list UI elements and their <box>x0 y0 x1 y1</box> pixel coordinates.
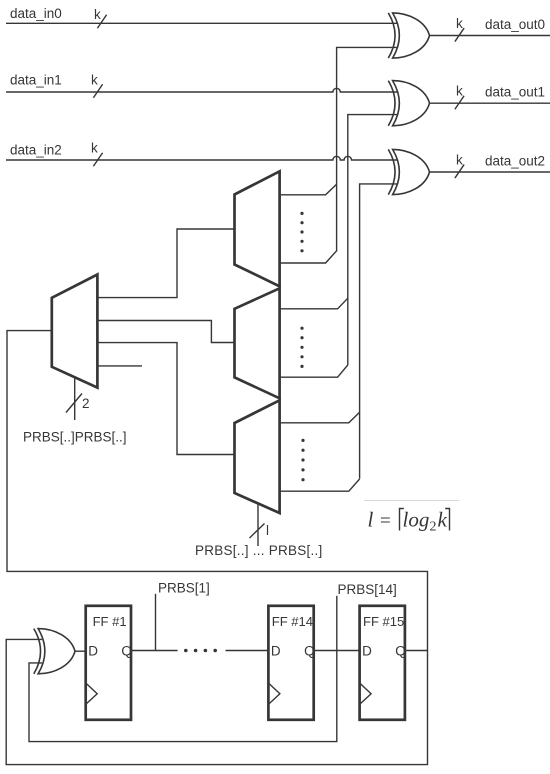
wire FF15 Q <box>405 650 428 652</box>
svg-text:data_in0: data_in0 <box>10 6 62 21</box>
svg-text:k: k <box>456 153 463 168</box>
ellipsis dots demux D2 outputs <box>300 327 303 368</box>
bus slash 2 on M0 select <box>66 394 82 413</box>
annotation l = ceil(log2 k) <box>368 508 450 535</box>
svg-text:Q: Q <box>304 644 315 659</box>
bus slash k on data_out2 <box>455 165 464 179</box>
op XOR gate U2 <box>388 81 429 126</box>
svg-text:k: k <box>94 7 101 22</box>
wire demux3 bus to XOR U3 input <box>360 184 398 479</box>
op XOR gate U1 <box>388 13 429 58</box>
wire M0 select <box>74 378 76 420</box>
wire XOR X0 output to FF1 D <box>75 650 86 652</box>
flip-flop FF #15 <box>360 606 406 720</box>
wire demux D2 fan bottom <box>280 365 348 377</box>
demux D1 <box>235 171 280 286</box>
mux M0 (2-bit select) <box>52 275 98 388</box>
wire data_out2 <box>430 171 550 173</box>
wire demux D1 fan top <box>280 184 337 195</box>
flip-flop FF #1 <box>86 606 132 720</box>
svg-text:k: k <box>456 16 463 31</box>
op XOR gate U3 <box>388 149 429 194</box>
svg-text:PRBS[14]: PRBS[14] <box>338 582 397 597</box>
bus slash k on data_out0 <box>455 28 464 42</box>
svg-text:k: k <box>91 141 98 156</box>
svg-text:k: k <box>91 73 98 88</box>
svg-text:Q: Q <box>395 644 406 659</box>
svg-text:data_out0: data_out0 <box>485 17 545 32</box>
svg-text:PRBS[..] ... PRBS[..]: PRBS[..] ... PRBS[..] <box>195 543 323 558</box>
svg-text:2: 2 <box>82 396 90 411</box>
svg-text:D: D <box>271 644 281 659</box>
ellipsis dots demux D3 outputs <box>301 439 304 482</box>
wire demux D2 fan top <box>280 298 348 309</box>
bus slash k on data_in0 <box>97 15 106 29</box>
svg-text:l: l <box>368 508 374 532</box>
svg-text:FF #1: FF #1 <box>93 614 127 629</box>
wire PRBS[1] tap <box>155 594 157 651</box>
wire data_out0 <box>430 35 550 37</box>
svg-text:data_out2: data_out2 <box>485 154 545 169</box>
wire demux D1 fan bottom <box>280 251 337 263</box>
svg-text:FF #14: FF #14 <box>272 614 313 629</box>
svg-text:D: D <box>362 644 372 659</box>
svg-text:data_out1: data_out1 <box>485 85 545 100</box>
wire data_in2 (hops over verticals) <box>6 156 397 160</box>
wire M0 output 4 stub <box>97 365 142 367</box>
wire demux D3 fan bottom <box>280 479 360 491</box>
svg-text:k: k <box>456 84 463 99</box>
bus slash k on data_in2 <box>93 153 102 167</box>
demux D3 <box>235 400 280 513</box>
svg-text:k: k <box>438 508 448 532</box>
wire M0 output 2 to demux D2 input <box>97 321 234 343</box>
svg-text:data_in1: data_in1 <box>10 73 62 88</box>
op XOR gate X0 (PRBS feedback) <box>34 629 75 674</box>
wire demux select l <box>257 503 259 546</box>
wire PRBS[14] tap <box>336 596 338 651</box>
wire M0 output 3 to demux D3 input <box>97 343 234 455</box>
wire demux1 bus to XOR U1 input <box>337 47 398 251</box>
bus slash l on demux select <box>250 524 265 539</box>
wire FF15 Q feedback to XOR X0 top input (outer loop) <box>6 639 427 764</box>
svg-text:log: log <box>403 508 430 532</box>
ellipsis dots FF chain <box>184 649 217 653</box>
svg-text:PRBS[1]: PRBS[1] <box>158 581 210 596</box>
svg-text:PRBS[..]PRBS[..]: PRBS[..]PRBS[..] <box>23 430 127 445</box>
wire to FF14 D <box>226 650 269 652</box>
wire M0 output 1 to demux D1 input <box>97 229 234 298</box>
wire FF14 Q to FF15 D <box>314 650 360 652</box>
svg-text:2: 2 <box>430 520 437 535</box>
wire FF15 Q feedback to M0 input (top loop) <box>7 331 428 651</box>
svg-text:=: = <box>380 511 391 532</box>
wire FF1 Q <box>131 650 178 652</box>
svg-text:data_in2: data_in2 <box>10 143 62 158</box>
ellipsis dots demux D1 outputs <box>300 212 303 253</box>
svg-text:l: l <box>266 523 269 538</box>
wire data_in1 (hops over vertical) <box>6 88 397 92</box>
bus slash k on data_out1 <box>455 96 464 110</box>
demux D2 <box>235 288 280 398</box>
svg-text:FF #15: FF #15 <box>363 614 404 629</box>
svg-text:D: D <box>88 644 98 659</box>
wire demux D3 fan top <box>280 412 360 423</box>
flip-flop FF #14 <box>268 606 314 720</box>
faint guide line <box>364 500 459 502</box>
wire demux2 bus to XOR U2 input <box>348 115 398 365</box>
wire data_out1 <box>430 102 550 104</box>
bus slash k on data_in1 <box>93 84 102 98</box>
wire FF14 Q feedback to XOR X0 bottom input (inner loop) <box>29 651 337 742</box>
wire data_in0 <box>6 22 397 24</box>
svg-text:Q: Q <box>121 644 132 659</box>
